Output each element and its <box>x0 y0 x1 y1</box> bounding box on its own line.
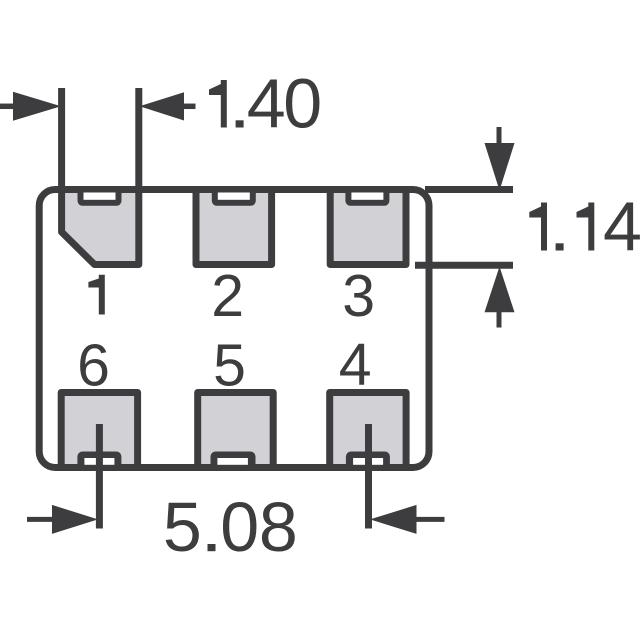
pad 2 notch <box>212 186 256 206</box>
dim 1.40 extension line left <box>58 88 65 193</box>
dim text 1.14 <box>529 203 547 251</box>
package outline <box>39 190 429 468</box>
svg-text:8: 8 <box>259 488 298 566</box>
dim 5.08 extension line right <box>365 424 372 529</box>
dim 1.14 extension line bottom <box>415 262 513 269</box>
pad 1 (chamfered) <box>62 190 139 265</box>
pad 5 notch <box>211 452 256 472</box>
svg-text:3: 3 <box>342 263 375 329</box>
svg-text:4: 4 <box>603 188 640 266</box>
pad 4 notch <box>346 452 390 472</box>
dim text 1.40 <box>209 80 227 128</box>
svg-text:0: 0 <box>283 65 322 143</box>
dim 5.08 right arrow <box>370 505 417 534</box>
pad 3 notch <box>345 186 389 206</box>
svg-text:0: 0 <box>220 488 259 566</box>
dim 1.40 right arrow <box>140 92 185 120</box>
pad 6 notch <box>77 452 121 472</box>
svg-text:5: 5 <box>163 488 202 566</box>
svg-text:2: 2 <box>211 263 244 329</box>
svg-text:5: 5 <box>213 333 246 399</box>
pad 4 <box>330 393 406 468</box>
dim 5.08 extension line left <box>96 424 103 529</box>
dim 1.14 down arrow <box>497 127 502 150</box>
pad 3 <box>330 190 406 265</box>
pin label 1 <box>88 275 104 315</box>
pad 6 <box>61 393 137 468</box>
svg-text:6: 6 <box>77 333 110 399</box>
dim 1.14 extension line top <box>425 186 513 193</box>
dim 1.40 extension line right <box>135 88 142 193</box>
dim 5.08 left arrow <box>27 517 55 522</box>
pad 1 notch <box>78 186 122 206</box>
dim 1.40 left arrow <box>0 104 16 110</box>
dim 1.14 up arrow <box>485 267 515 313</box>
svg-text:4: 4 <box>247 65 286 143</box>
pad 5 <box>198 393 274 468</box>
pad 2 <box>196 190 272 265</box>
svg-text:4: 4 <box>339 332 372 398</box>
